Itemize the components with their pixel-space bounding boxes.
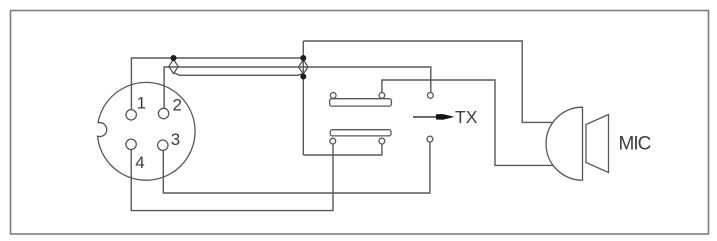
switch S2 left terminal — [330, 138, 336, 144]
wire shield bus vertical — [302, 41, 304, 155]
wire pin 3 down to TX bottom contact — [163, 142, 430, 193]
wire pin 4 down to switch S2 left terminal — [131, 144, 333, 211]
wire shield bus to MIC top lead — [303, 41, 553, 122]
junction dot right bottom — [300, 74, 306, 80]
svg-text:2: 2 — [173, 96, 182, 115]
svg-text:3: 3 — [171, 130, 180, 149]
wire cable lower conductor — [174, 73, 304, 76]
connector J1 body — [98, 82, 196, 180]
TX arrow — [413, 116, 438, 118]
switch S1 right terminal — [379, 93, 385, 99]
junction dot right top — [300, 55, 306, 61]
TX switch top contact — [428, 93, 434, 99]
wire switch S1 right terminal to MIC bottom lead — [382, 80, 555, 165]
switch S2 right terminal — [379, 138, 385, 144]
cable crossover diamond left — [169, 60, 179, 74]
svg-text:4: 4 — [135, 153, 144, 172]
switch S1 left terminal — [330, 93, 336, 99]
pin 1 — [126, 110, 136, 120]
pin 2 — [158, 108, 168, 118]
microphone MIC body — [546, 107, 582, 180]
svg-text:MIC: MIC — [619, 134, 651, 155]
junction dot left — [171, 55, 177, 61]
wire switch S2 right terminal to shield bus — [303, 144, 382, 155]
pin 4 — [126, 139, 136, 149]
TX switch bottom contact — [427, 136, 433, 142]
switch S2 bar — [330, 130, 391, 136]
wire pin 1 up to shield line (conductor A) — [131, 58, 303, 110]
switch S1 bar — [330, 99, 392, 106]
svg-text:1: 1 — [137, 94, 146, 113]
wire pin 2 up, cable upper conductor, down to TX top contact — [164, 67, 431, 108]
microphone MIC horn — [586, 115, 609, 173]
svg-text:TX: TX — [455, 107, 478, 127]
cable crossover diamond right — [299, 60, 309, 74]
pin 3 — [158, 140, 168, 150]
